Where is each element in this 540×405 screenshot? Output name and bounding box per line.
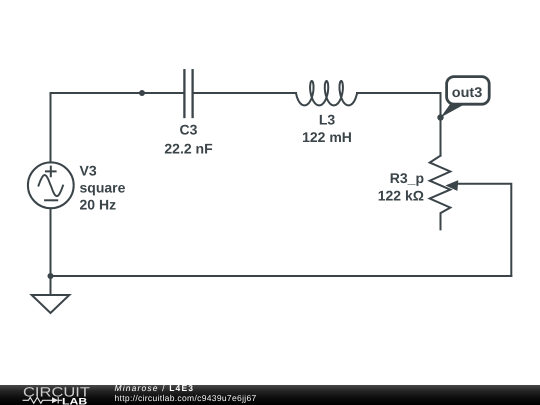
svg-text:C3: C3	[180, 122, 198, 138]
svg-text:http://circuitlab.com/c9439u7e: http://circuitlab.com/c9439u7e6jj67	[115, 393, 257, 403]
svg-text:out3: out3	[452, 84, 483, 100]
svg-text:22.2 nF: 22.2 nF	[164, 141, 213, 157]
svg-text:LAB: LAB	[62, 396, 87, 405]
svg-text:122 mH: 122 mH	[302, 129, 352, 145]
svg-text:122 kΩ: 122 kΩ	[378, 188, 424, 204]
svg-text:square: square	[80, 180, 126, 196]
svg-text:Minarose / L4E3: Minarose / L4E3	[115, 385, 195, 393]
svg-text:20 Hz: 20 Hz	[80, 197, 117, 213]
svg-text:V3: V3	[80, 163, 97, 179]
svg-text:L3: L3	[319, 112, 336, 128]
svg-text:R3_p: R3_p	[390, 170, 424, 186]
